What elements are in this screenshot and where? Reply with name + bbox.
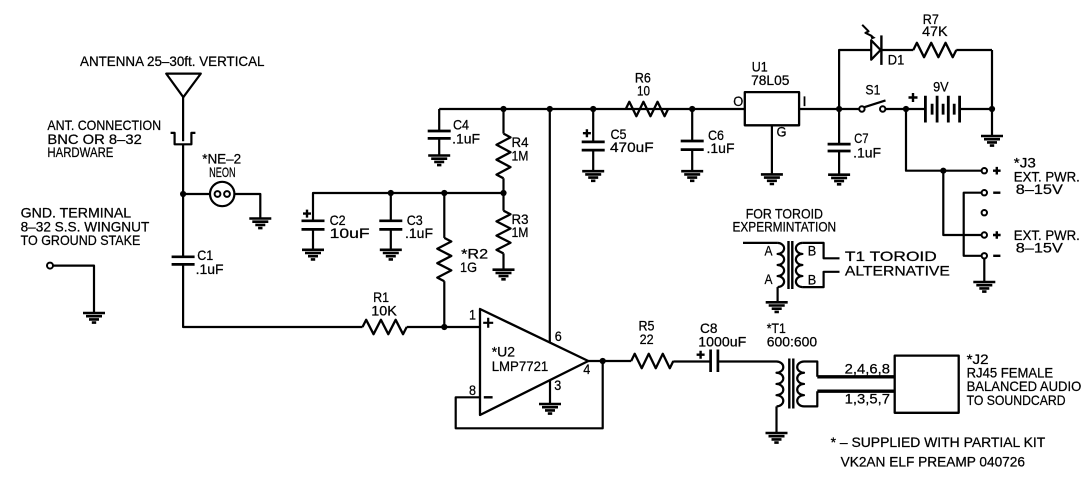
wire U1 G to ground	[771, 125, 773, 174]
wire toroid input	[743, 242, 778, 244]
node pin6 tap	[547, 106, 553, 112]
node C7/D1 junction	[836, 106, 842, 112]
wire R7 to right node	[956, 49, 992, 51]
svg-text:47K: 47K	[922, 23, 948, 39]
svg-text:8–15V: 8–15V	[1016, 181, 1064, 197]
plus battery	[909, 93, 918, 102]
svg-text:G: G	[777, 124, 787, 140]
capacitor C5	[582, 142, 605, 150]
resistor R5	[631, 354, 673, 368]
switch S1	[859, 106, 864, 111]
svg-text:ALTERNATIVE: ALTERNATIVE	[845, 263, 950, 279]
svg-text:1: 1	[469, 306, 476, 322]
wire T1alt sec bottom	[802, 272, 839, 287]
wire RJ45 upper pair	[817, 375, 894, 378]
plus C2	[303, 210, 311, 218]
wire J3 lower plus	[943, 171, 981, 235]
wire S1 to battery	[885, 108, 925, 110]
neon bulb NE-2	[210, 182, 234, 206]
mark plus lower	[993, 231, 1001, 239]
wire R1 to op-amp pin1	[407, 326, 480, 328]
node bias/R3/R4 junction	[500, 190, 506, 196]
svg-text:NEON: NEON	[209, 164, 236, 180]
transformer T1alt primary	[778, 243, 785, 287]
wire neon to ground	[234, 194, 260, 219]
wire bus to C3	[390, 193, 392, 221]
wire C5 to ground	[592, 150, 594, 171]
resistor R7	[913, 43, 956, 57]
capacitor C4	[428, 131, 451, 138]
svg-text:2,4,6,8: 2,4,6,8	[845, 360, 891, 376]
node C6 tap	[689, 106, 695, 112]
svg-text:.1uF: .1uF	[405, 225, 433, 241]
svg-text:B: B	[808, 271, 817, 287]
wire C7 to ground	[838, 151, 840, 175]
wire antenna to connector	[182, 97, 184, 141]
capacitor C7	[828, 144, 851, 151]
wire T1alt primary ground	[776, 287, 778, 302]
mark minus lower	[993, 255, 1000, 257]
wire pin3 to ground	[549, 380, 551, 404]
svg-text:ANTENNA 25–30ft. VERTICAL: ANTENNA 25–30ft. VERTICAL	[80, 53, 265, 69]
plus C5	[583, 129, 591, 137]
ground battery	[981, 136, 1003, 146]
wire connector to neon junction	[182, 144, 184, 194]
resistor R2	[437, 238, 451, 281]
svg-text:EXPERMINTATION: EXPERMINTATION	[733, 219, 837, 235]
svg-text:1M: 1M	[512, 147, 529, 163]
resistor R6	[626, 102, 668, 116]
node R2 tap	[441, 190, 447, 196]
wire J3 to ground	[983, 259, 985, 283]
resistor R3	[497, 211, 511, 254]
capacitor C3	[379, 221, 402, 230]
ground C7	[828, 175, 850, 185]
svg-text:.1uF: .1uF	[853, 145, 881, 161]
node R1/R2 junction	[441, 324, 447, 330]
transformer T1 secondary	[797, 362, 804, 407]
wire top bus	[439, 108, 745, 110]
wire battery to right node	[960, 108, 992, 110]
transformer T1 core	[789, 359, 793, 409]
wire T1 sec bottom	[804, 391, 817, 406]
terminal J3 plus upper	[982, 168, 987, 173]
wire feedback loop	[456, 361, 603, 428]
svg-text:4: 4	[583, 361, 590, 377]
svg-text:10K: 10K	[371, 303, 397, 319]
resistor R1	[363, 320, 407, 334]
svg-text:1G: 1G	[460, 259, 477, 275]
svg-text:A: A	[765, 242, 774, 258]
svg-text:LMP7721: LMP7721	[492, 358, 549, 374]
ground C5	[582, 171, 604, 181]
transformer T1alt core	[789, 241, 793, 289]
terminal J3 minus lower	[982, 253, 987, 258]
wire bus to C5	[592, 109, 594, 142]
svg-text:.1uF: .1uF	[707, 140, 735, 156]
svg-text:10uF: 10uF	[330, 225, 370, 241]
LED D1 arrow	[862, 25, 872, 36]
wire R4 to junction	[502, 178, 504, 193]
wire J3 minus link	[964, 193, 982, 256]
ground toroid	[766, 302, 788, 312]
op-amp minus mark	[484, 396, 493, 398]
wire C8 to T1	[718, 360, 777, 362]
node J3 branch	[940, 168, 946, 174]
wire R5 to C8	[673, 360, 710, 362]
op-amp plus mark	[483, 318, 493, 328]
wire U1 out to S1	[799, 108, 859, 110]
terminal J3 minus upper	[982, 190, 987, 195]
wire C2 to ground	[312, 229, 314, 249]
LED D1	[871, 40, 880, 59]
op-amp U2 triangle	[480, 309, 588, 415]
svg-text:VK2AN ELF PREAMP 040726: VK2AN ELF PREAMP 040726	[841, 454, 1026, 470]
svg-text:1000uF: 1000uF	[698, 333, 746, 349]
ground J3	[973, 282, 995, 292]
svg-text:TO SOUNDCARD: TO SOUNDCARD	[967, 392, 1066, 408]
wire pin6 supply	[549, 109, 551, 342]
connector J1 BNC cup	[171, 133, 196, 144]
svg-text:1M: 1M	[512, 224, 529, 240]
capacitor C1	[172, 257, 195, 265]
svg-text:3: 3	[554, 377, 561, 393]
wire C6 to ground	[691, 150, 693, 172]
wire right vertical	[991, 50, 993, 136]
wire J3 plus branch	[906, 109, 982, 171]
wire junction to R3	[502, 193, 504, 211]
svg-text:9V: 9V	[933, 78, 949, 94]
svg-text:B: B	[808, 242, 817, 258]
svg-text:TO GROUND STAKE: TO GROUND STAKE	[21, 232, 141, 248]
mark plus upper	[993, 167, 1001, 175]
battery 9V	[925, 96, 959, 123]
connector J2 RJ45 box	[895, 356, 959, 413]
ground neon	[249, 219, 271, 229]
terminal J3 plus lower	[982, 232, 987, 237]
wire C3 to ground	[390, 229, 392, 249]
ground C3	[380, 250, 402, 260]
wire D1 to R7	[881, 49, 913, 51]
svg-text:6: 6	[555, 328, 562, 344]
svg-text:8–15V: 8–15V	[1016, 240, 1064, 256]
capacitor C2	[302, 221, 325, 230]
wire output	[588, 360, 631, 362]
regulator U1 78L05 box	[745, 92, 799, 125]
svg-text:D1: D1	[888, 52, 905, 68]
terminal ground stake circle	[47, 263, 53, 269]
node R4 top	[500, 106, 506, 112]
plus C8	[697, 351, 705, 359]
wire RJ45 lower pair	[817, 390, 894, 393]
ground T1	[766, 433, 788, 443]
terminal J3 middle	[982, 210, 987, 215]
wire T1 sec top	[804, 362, 817, 377]
wire bus to R2	[443, 193, 445, 238]
svg-text:600:600: 600:600	[767, 333, 818, 349]
svg-text:HARDWARE: HARDWARE	[47, 144, 113, 160]
transformer T1 primary	[777, 362, 784, 407]
svg-text:1,3,5,7: 1,3,5,7	[845, 390, 891, 406]
resistor R4	[497, 134, 511, 179]
ground R3	[493, 270, 515, 280]
wire junction to C7	[838, 109, 840, 144]
svg-text:S1: S1	[865, 81, 880, 97]
svg-text:470uF: 470uF	[610, 139, 654, 155]
wire C1 to R1	[183, 264, 362, 327]
svg-text:I: I	[802, 93, 807, 109]
ground C4	[428, 156, 450, 166]
node C5 tap	[590, 106, 596, 112]
capacitor C8	[711, 350, 718, 373]
svg-text:10: 10	[637, 82, 650, 98]
capacitor C6	[681, 141, 704, 150]
wire R3 to ground	[502, 253, 504, 269]
node battery/R7 junction	[989, 106, 995, 112]
svg-text:.1uF: .1uF	[196, 261, 224, 277]
wire junction to neon bulb	[183, 193, 210, 195]
ground op-amp	[539, 404, 561, 414]
wire bus to C4	[438, 109, 440, 131]
wire bus to C6	[691, 109, 693, 141]
wire bias bus	[313, 193, 504, 221]
wire T1 primary to ground	[775, 406, 777, 433]
wire terminal to ground	[53, 266, 94, 313]
node output junction	[600, 358, 606, 364]
wire bus to R4	[502, 109, 504, 134]
wire T1alt sec top	[802, 243, 839, 258]
mark minus upper	[993, 191, 1000, 193]
svg-text:O: O	[733, 93, 743, 109]
node antenna/neon junction	[180, 191, 186, 197]
wire C4 to ground	[438, 138, 440, 155]
node C3 tap	[388, 190, 394, 196]
svg-text:8: 8	[469, 382, 476, 398]
wire D1 branch left	[839, 50, 871, 109]
wire R2 to R1 junction	[443, 281, 445, 327]
ground U1	[761, 174, 783, 184]
svg-text:22: 22	[640, 331, 654, 347]
ground C2	[302, 250, 324, 260]
wire junction to C1	[182, 194, 184, 257]
antenna symbol	[166, 74, 201, 98]
svg-text:* – SUPPLIED WITH PARTIAL: * – SUPPLIED WITH PARTIAL KIT	[831, 434, 1046, 450]
transformer T1alt secondary	[796, 243, 803, 287]
svg-text:.1uF: .1uF	[452, 131, 480, 147]
node J3 tap	[903, 106, 909, 112]
ground C6	[681, 171, 703, 181]
ground terminal	[83, 313, 105, 323]
svg-text:A: A	[765, 271, 774, 287]
svg-text:78L05: 78L05	[751, 72, 790, 88]
